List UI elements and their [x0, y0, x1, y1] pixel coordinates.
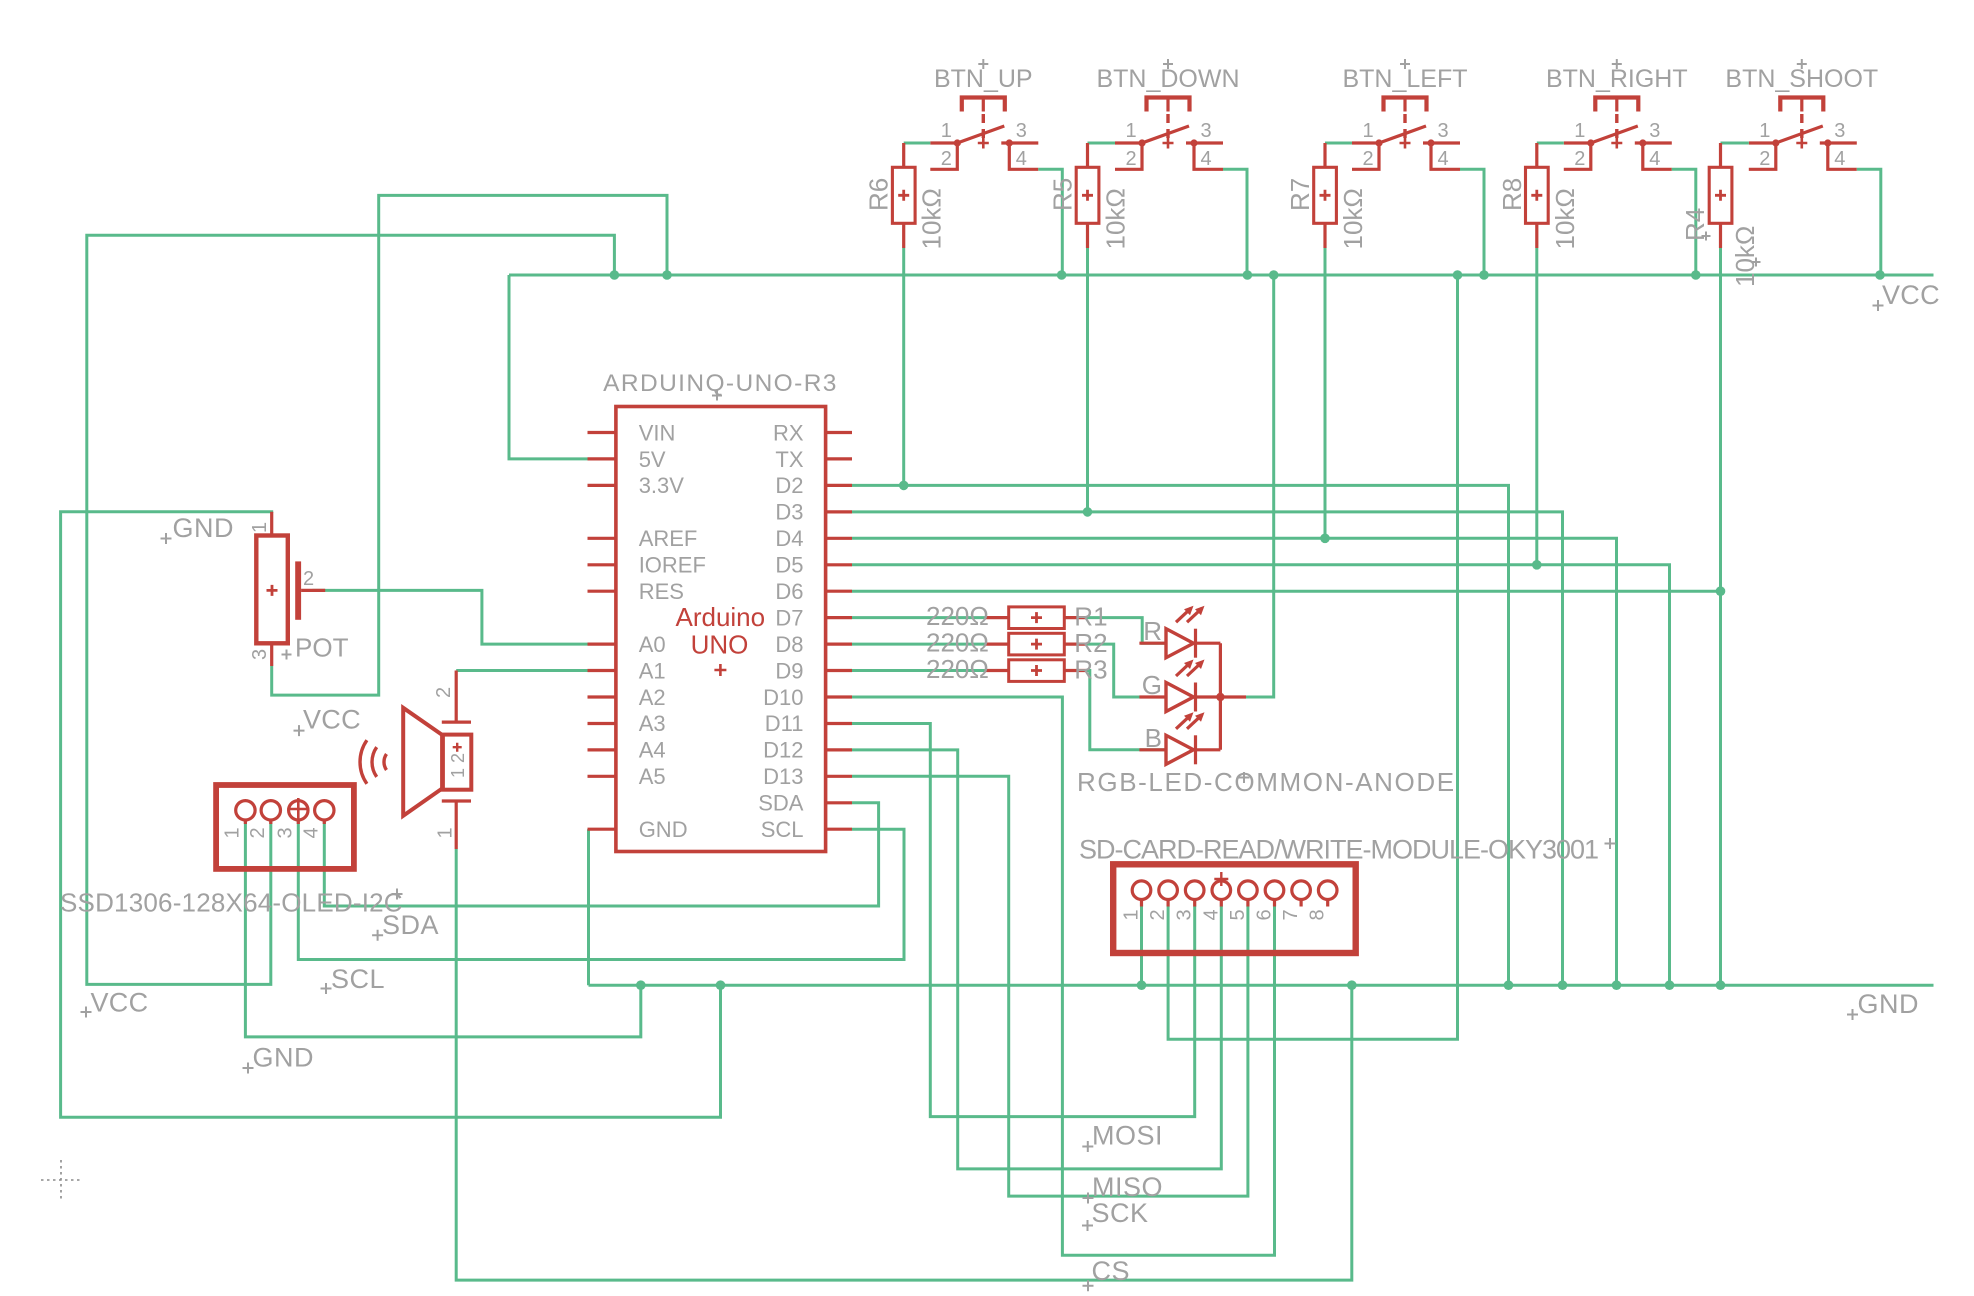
svg-text:SCL: SCL — [331, 964, 385, 994]
wire D9 to R3 — [852, 669, 985, 672]
svg-text:1: 1 — [1121, 909, 1143, 920]
svg-text:SDA: SDA — [758, 791, 804, 816]
svg-text:RGB-LED-COMMON-ANODE: RGB-LED-COMMON-ANODE — [1077, 767, 1456, 797]
svg-text:10kΩ: 10kΩ — [917, 188, 947, 249]
junction dot D2/R6 — [899, 481, 909, 491]
svg-text:SSD1306-128X64-OLED-I2C: SSD1306-128X64-OLED-I2C — [60, 888, 403, 918]
svg-text:R8: R8 — [1497, 178, 1527, 211]
svg-text:3: 3 — [1200, 120, 1211, 142]
svg-text:D4: D4 — [775, 526, 803, 551]
svg-text:D9: D9 — [775, 658, 803, 683]
svg-text:A2: A2 — [639, 685, 666, 710]
wire BTN_SHOOT pin1 to R4 — [1721, 142, 1749, 145]
svg-text:TX: TX — [775, 447, 803, 472]
svg-text:D13: D13 — [763, 764, 803, 789]
svg-text:4: 4 — [1834, 148, 1845, 170]
svg-text:8: 8 — [1307, 909, 1329, 920]
svg-text:5: 5 — [1227, 909, 1249, 920]
svg-text:1: 1 — [435, 827, 457, 838]
svg-text:AREF: AREF — [639, 526, 698, 551]
svg-text:IOREF: IOREF — [639, 553, 706, 578]
svg-text:R5: R5 — [1048, 178, 1078, 211]
wire SD pin2 to VCC — [1168, 275, 1457, 1039]
svg-text:1: 1 — [1125, 120, 1136, 142]
wire D3 net — [852, 512, 1563, 985]
resistor R3 220 — [985, 660, 1087, 682]
resistor R4 10k — [1709, 143, 1732, 248]
svg-text:7: 7 — [1280, 909, 1302, 920]
svg-text:D8: D8 — [775, 632, 803, 657]
svg-text:4: 4 — [1200, 148, 1211, 170]
svg-text:2: 2 — [1147, 909, 1169, 920]
svg-text:3: 3 — [1174, 909, 1196, 920]
Arduino left pin names — [639, 420, 706, 842]
svg-text:BTN_DOWN: BTN_DOWN — [1096, 65, 1239, 93]
svg-text:1: 1 — [222, 827, 244, 838]
LED B — [1139, 712, 1220, 764]
wire R2 to LED G — [1087, 644, 1165, 697]
wire D8 to R2 — [852, 643, 985, 646]
wire R5 bottom to D3 row — [1086, 248, 1089, 512]
svg-text:A1: A1 — [639, 658, 666, 683]
wire BTN_RIGHT pin4 to VCC — [1672, 169, 1696, 275]
svg-text:D11: D11 — [765, 711, 804, 736]
switch BTN_LEFT — [1342, 59, 1467, 170]
switch BTN_SHOOT — [1725, 59, 1878, 170]
svg-text:3: 3 — [1437, 120, 1448, 142]
svg-text:VCC: VCC — [303, 705, 361, 735]
wire R3 to LED B — [1087, 671, 1165, 750]
svg-text:UNO: UNO — [691, 629, 749, 659]
wire BTN_RIGHT pin1 to R8 — [1537, 142, 1564, 145]
svg-text:4: 4 — [1649, 148, 1660, 170]
wire GND from speaker pin1 — [456, 849, 1352, 1280]
wire D2 net — [852, 485, 1509, 985]
svg-text:3: 3 — [1834, 120, 1845, 142]
junction dots on VCC rail — [610, 270, 1885, 280]
svg-text:SCL: SCL — [761, 817, 804, 842]
junction dots on GND rail — [636, 980, 1725, 990]
wire BTN_LEFT pin1 to R7 — [1325, 142, 1352, 145]
resistor R7 10k — [1314, 143, 1337, 248]
svg-text:3: 3 — [1649, 120, 1660, 142]
wire BTN_UP pin1 to R6 — [904, 142, 931, 145]
svg-text:D2: D2 — [775, 473, 803, 498]
resistor R2 220 — [985, 633, 1087, 655]
svg-text:VCC: VCC — [91, 988, 149, 1018]
junction dot D3/R5 — [1083, 507, 1093, 517]
svg-text:A3: A3 — [639, 711, 666, 736]
OLED connector SSD1306 — [216, 785, 354, 869]
svg-text:2: 2 — [303, 568, 314, 590]
svg-text:SD-CARD-READ/WRITE-MODULE-OKY3: SD-CARD-READ/WRITE-MODULE-OKY3001 — [1079, 835, 1598, 865]
svg-text:VIN: VIN — [639, 420, 676, 445]
svg-text:2: 2 — [1759, 148, 1770, 170]
svg-text:5V: 5V — [639, 447, 666, 472]
svg-text:GND: GND — [1858, 989, 1920, 1019]
svg-text:RX: RX — [773, 420, 804, 445]
svg-text:10kΩ: 10kΩ — [1730, 226, 1760, 287]
wire R6 bottom to D2 row — [902, 248, 905, 485]
svg-text:4: 4 — [1016, 148, 1027, 170]
svg-text:D5: D5 — [775, 553, 803, 578]
svg-text:2: 2 — [1574, 148, 1585, 170]
svg-text:10kΩ: 10kΩ — [1101, 188, 1131, 249]
svg-text:10kΩ: 10kΩ — [1550, 188, 1580, 249]
svg-text:6: 6 — [1254, 909, 1276, 920]
svg-text:R7: R7 — [1285, 178, 1315, 211]
svg-text:CS: CS — [1092, 1256, 1131, 1286]
wire VCC rail — [509, 274, 1934, 277]
svg-text:GND: GND — [253, 1043, 315, 1073]
svg-text:2: 2 — [1362, 148, 1373, 170]
svg-text:B: B — [1145, 723, 1162, 753]
wire BTN_DOWN pin4 to VCC — [1223, 169, 1247, 275]
svg-text:2: 2 — [433, 687, 455, 698]
svg-text:R6: R6 — [864, 178, 894, 211]
wire LED cathode common bar — [1219, 643, 1222, 750]
wire VCC to OLED pin2 — [87, 235, 615, 984]
resistor R8 10k — [1526, 143, 1549, 248]
svg-text:220Ω: 220Ω — [926, 654, 989, 684]
Arduino UNO box U1 — [616, 407, 826, 852]
svg-text:VCC: VCC — [1882, 280, 1940, 310]
svg-text:4: 4 — [1437, 148, 1448, 170]
svg-text:Arduino: Arduino — [675, 602, 765, 632]
svg-text:D6: D6 — [775, 579, 803, 604]
wire R1 to LED R — [1087, 618, 1165, 644]
Arduino right pin stubs — [826, 433, 852, 830]
wire R4 bottom through D6 to GND rail — [1719, 248, 1722, 985]
SD module pin numbers — [1121, 909, 1329, 920]
svg-text:BTN_LEFT: BTN_LEFT — [1342, 65, 1467, 93]
svg-text:D3: D3 — [775, 500, 803, 525]
svg-text:A4: A4 — [639, 738, 666, 763]
wire GND rail — [589, 984, 1934, 987]
switch BTN_UP — [930, 59, 1038, 170]
svg-text:1: 1 — [249, 522, 271, 533]
switch BTN_RIGHT — [1546, 59, 1688, 170]
wire D11 to SD pin3 — [852, 724, 1195, 1117]
svg-text:2: 2 — [247, 827, 269, 838]
svg-text:A5: A5 — [639, 764, 666, 789]
junction dot D4/R7 — [1320, 534, 1330, 544]
wire R8 bottom to D5 row — [1535, 248, 1538, 565]
wire SCL net — [298, 821, 904, 960]
LED R — [1139, 606, 1220, 658]
svg-text:1: 1 — [1759, 120, 1770, 142]
resistor R6 10k — [892, 143, 915, 248]
svg-text:3.3V: 3.3V — [639, 473, 685, 498]
origin crosshair — [41, 1160, 81, 1200]
wire BTN_SHOOT pin4 to VCC — [1857, 169, 1881, 275]
wire GND from OLED pin1 — [245, 821, 640, 1037]
svg-text:GND: GND — [639, 817, 688, 842]
switch BTN_DOWN — [1096, 59, 1239, 170]
svg-text:POT: POT — [295, 633, 349, 663]
svg-text:1: 1 — [1362, 120, 1373, 142]
svg-text:SDA: SDA — [382, 910, 439, 940]
svg-text:MOSI: MOSI — [1092, 1121, 1163, 1151]
svg-text:ARDUINQ-UNO-R3: ARDUINQ-UNO-R3 — [603, 370, 838, 397]
wire GND from POT pin1 — [61, 512, 721, 1117]
svg-text:4: 4 — [301, 827, 323, 838]
wire BTN_LEFT pin4 to VCC — [1460, 169, 1484, 275]
wire D7 to R1 — [852, 616, 985, 619]
junction dot LED common — [1216, 693, 1224, 701]
wire VCC to 5V pin — [509, 275, 588, 459]
svg-text:RES: RES — [639, 579, 684, 604]
svg-text:D12: D12 — [763, 738, 803, 763]
wire D4 net — [852, 538, 1617, 985]
wire A1 to speaker pin2 — [456, 669, 587, 672]
wire D10 to SD pin6 (SCK) — [852, 697, 1275, 1255]
svg-text:R1: R1 — [1074, 601, 1107, 631]
svg-text:3: 3 — [1016, 120, 1027, 142]
svg-text:3: 3 — [249, 649, 271, 660]
wire BTN_DOWN pin1 to R5 — [1088, 142, 1116, 145]
svg-text:220Ω: 220Ω — [926, 601, 989, 631]
svg-text:GND: GND — [173, 513, 235, 543]
svg-text:R: R — [1143, 616, 1162, 646]
wire D5 net — [852, 565, 1670, 985]
svg-text:3: 3 — [275, 827, 297, 838]
svg-text:1: 1 — [941, 120, 952, 142]
svg-text:2: 2 — [941, 148, 952, 170]
wire R7 bottom to D4 row — [1324, 248, 1327, 538]
svg-text:A0: A0 — [639, 632, 666, 657]
svg-text:BTN_RIGHT: BTN_RIGHT — [1546, 65, 1688, 93]
wire SD pin1 to GND — [1140, 906, 1143, 985]
junction dot D5/R8 — [1532, 560, 1542, 570]
wire D12 to SD pin4 (MOSI) — [852, 750, 1221, 1169]
wire BTN_UP pin4 to VCC — [1038, 169, 1062, 275]
svg-text:1 2: 1 2 — [448, 753, 468, 778]
svg-text:2: 2 — [1125, 148, 1136, 170]
wire SDA net — [324, 803, 878, 906]
Arduino left pin stubs — [588, 433, 616, 830]
svg-text:SCK: SCK — [1092, 1198, 1149, 1228]
svg-text:BTN_UP: BTN_UP — [934, 65, 1033, 93]
svg-text:BTN_SHOOT: BTN_SHOOT — [1725, 65, 1878, 93]
speaker SP1 — [360, 671, 471, 850]
SD card module connector — [1113, 864, 1356, 953]
wire LED common anode to VCC — [1246, 275, 1274, 697]
svg-text:10kΩ: 10kΩ — [1338, 188, 1368, 249]
LED G — [1139, 660, 1220, 712]
svg-text:1: 1 — [1574, 120, 1585, 142]
wire VCC to POT pin3 — [272, 195, 667, 695]
svg-text:D7: D7 — [775, 605, 803, 630]
wire D6 net — [852, 590, 1721, 593]
wire GND from Arduino GND pin — [587, 829, 590, 985]
Arduino right pin names — [758, 420, 804, 842]
resistor R1 220 — [985, 607, 1087, 629]
svg-text:R3: R3 — [1074, 654, 1107, 684]
svg-text:4: 4 — [1200, 909, 1222, 920]
svg-text:D10: D10 — [763, 685, 803, 710]
resistor R5 10k — [1076, 143, 1099, 248]
junction dot D6/R4 — [1716, 586, 1726, 596]
wire D13 to SD pin5 (MISO) — [852, 776, 1248, 1196]
potentiometer POT — [256, 512, 325, 666]
OLED pin numbers — [222, 827, 323, 838]
svg-text:G: G — [1142, 670, 1162, 700]
wire A0 to POT wiper — [312, 590, 587, 644]
